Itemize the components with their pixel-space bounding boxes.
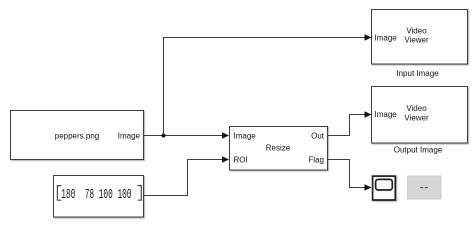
- svg-text:Input Image: Input Image: [396, 69, 439, 78]
- svg-text:180 78 100 100: 180 78 100 100: [61, 188, 131, 203]
- wire peppers.png Image -> Resize Image: [144, 135, 223, 137]
- wire junction -> Input Image viewer: [164, 38, 366, 136]
- svg-text:Image: Image: [234, 132, 257, 141]
- source block peppers.png (Image From File): [11, 111, 144, 160]
- svg-text:Out: Out: [311, 132, 325, 141]
- wire constant -> Resize ROI: [144, 160, 223, 196]
- scope block (Flag viewer): [373, 176, 396, 200]
- Video Viewer block (Input Image): [372, 10, 468, 65]
- svg-text:ROI: ROI: [234, 156, 248, 165]
- arrowhead at Input Image viewer: [365, 34, 372, 41]
- svg-text:peppers.png: peppers.png: [55, 132, 99, 141]
- arrowhead at Output Image viewer: [365, 111, 372, 118]
- svg-text:Video: Video: [406, 104, 427, 113]
- svg-text:Image: Image: [118, 132, 141, 141]
- constant block [180 78 100 100]: [54, 176, 144, 218]
- svg-text:Resize: Resize: [266, 144, 291, 153]
- svg-text:Viewer: Viewer: [404, 36, 429, 45]
- Video Viewer block (Output Image): [372, 87, 468, 144]
- wire Resize Flag -> scope: [328, 160, 365, 188]
- display block (gray, "--"): [408, 176, 442, 199]
- arrowhead at Resize Image input: [222, 132, 229, 139]
- junction node on Image wire: [162, 134, 166, 138]
- wire Resize Out -> Output Image viewer: [328, 115, 365, 136]
- svg-text:Image: Image: [375, 34, 398, 43]
- svg-text:Viewer: Viewer: [404, 114, 429, 123]
- arrowhead at Resize ROI input: [222, 156, 229, 163]
- svg-text:Image: Image: [375, 110, 398, 119]
- svg-text:Video: Video: [406, 27, 427, 36]
- arrowhead at scope input: [365, 184, 372, 191]
- Resize block: [230, 127, 328, 171]
- svg-text:Output Image: Output Image: [394, 145, 443, 154]
- svg-text:Flag: Flag: [308, 156, 324, 165]
